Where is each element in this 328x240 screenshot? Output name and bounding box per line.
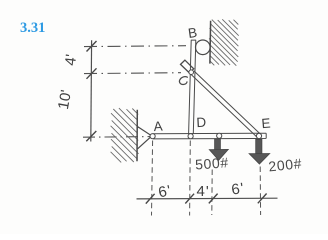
svg-text:4': 4': [62, 53, 80, 66]
lower wall hatching: [111, 108, 139, 162]
pin circle E: [256, 133, 261, 138]
svg-text:4': 4': [197, 183, 210, 200]
tick at A level: [86, 131, 96, 141]
upper wall hatching: [209, 19, 239, 65]
pin circle at load point: [217, 133, 222, 138]
pin support triangle at A: [138, 127, 152, 149]
projection dashed line below 500 load: [211, 170, 213, 216]
pulley at B: [196, 40, 211, 55]
tick below A: [146, 194, 155, 204]
link at C: [181, 60, 194, 73]
dash-dot line at A level: [83, 136, 150, 139]
svg-text:3.31: 3.31: [20, 20, 45, 36]
svg-text:6': 6': [230, 180, 245, 199]
tick at B level: [87, 41, 97, 52]
vertical dimension line: [90, 40, 93, 141]
upper wall edge: [209, 21, 212, 64]
tick below D: [185, 194, 194, 204]
pin circle C: [189, 70, 194, 75]
member AE horizontal: [153, 133, 266, 139]
lower wall edge: [136, 110, 138, 162]
tick at C level: [87, 68, 97, 79]
pin circle D: [188, 134, 193, 139]
tick below E: [258, 194, 267, 204]
projection dashed line below E: [259, 167, 261, 216]
pin circle A: [150, 134, 155, 139]
dash-dot line at B level: [84, 45, 186, 48]
tick below 500 load: [209, 194, 218, 204]
projection dashed line below A: [152, 141, 153, 216]
svg-text:10': 10': [55, 88, 75, 110]
bottom dimension line: [137, 197, 278, 200]
svg-text:A: A: [153, 119, 163, 135]
load arrow 200: [249, 139, 270, 164]
svg-text:B: B: [187, 25, 198, 41]
svg-text:D: D: [196, 115, 207, 131]
svg-text:6': 6': [157, 182, 173, 201]
member CE diagonal: [191, 71, 261, 138]
member BD vertical: [189, 40, 197, 134]
load arrow 500: [209, 139, 228, 161]
dash-dot line at C level: [84, 72, 181, 75]
svg-text:200#: 200#: [268, 155, 303, 174]
projection dashed line below D: [189, 141, 192, 216]
label c handwritten: [179, 77, 187, 85]
svg-text:E: E: [261, 116, 271, 132]
